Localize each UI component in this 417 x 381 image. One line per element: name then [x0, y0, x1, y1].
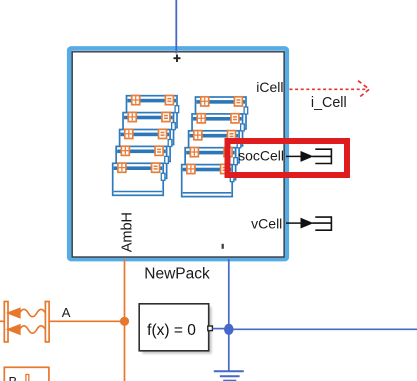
wire: electrical - vertical (blue) [228, 259, 230, 371]
terminator icon socCell [312, 148, 331, 164]
svg-text:NewPack: NewPack [144, 265, 210, 282]
battery stack left: cell L3 [120, 129, 172, 161]
signal wire vCell [286, 222, 302, 224]
wire: electrical + feed from top [175, 0, 177, 53]
wire: thermal horizontal to convection element [0, 320, 5, 322]
arrowhead socCell [301, 152, 312, 161]
convective heat transfer element [4, 302, 49, 342]
open arrowhead iCell [358, 81, 369, 98]
battery stack left: cell L1 (front) [113, 163, 165, 195]
battery stack right: cell R5 (back) [196, 97, 248, 129]
svg-text:i_Cell: i_Cell [311, 95, 347, 111]
port: solver RConn square [208, 326, 213, 331]
solver block f(x)=0 [139, 304, 209, 351]
svg-text:AmbH: AmbH [119, 212, 135, 252]
battery stack left: cell L4 [123, 112, 175, 144]
solver block f(x)=0 shadow [142, 307, 211, 354]
ground G1 (electrical reference) [214, 371, 244, 380]
dashed signal line iCell [290, 88, 368, 90]
battery stack right: cell R3 [189, 131, 241, 163]
arrowhead vCell [301, 218, 312, 227]
terminator icon vCell [312, 216, 331, 231]
signal wire socCell [286, 155, 302, 157]
battery stack right: cell R2 [185, 148, 237, 180]
wire: thermal AmbH vertical (orange) [124, 259, 126, 381]
wire: solver to junction [212, 328, 225, 330]
svg-text:A: A [62, 305, 71, 320]
junction node (electrical, blue) [224, 324, 234, 335]
svg-text:iCell: iCell [256, 79, 283, 95]
svg-text:vCell: vCell [251, 215, 282, 231]
svg-text:B: B [9, 374, 18, 381]
battery stack right: cell R1 (front) [182, 164, 234, 196]
port label + (positive terminal) [174, 57, 181, 59]
red highlight box around socCell output [228, 141, 348, 175]
battery stack left: cell L2 [116, 146, 168, 178]
junction node (thermal, orange) [120, 317, 129, 326]
battery stack left: cell L5 (back) [127, 96, 179, 128]
subsystem block NewPack (selected: blue halo + dark border) [69, 48, 287, 259]
port stub inside block B [26, 375, 29, 381]
port label - (negative terminal) [222, 244, 224, 249]
svg-text:socCell: socCell [238, 147, 284, 163]
wire: electrical horizontal to right edge [229, 328, 417, 330]
svg-text:f(x) = 0: f(x) = 0 [147, 322, 196, 339]
block B (partially visible, bottom-left) [4, 367, 49, 381]
battery stack right: cell R4 [192, 114, 244, 146]
